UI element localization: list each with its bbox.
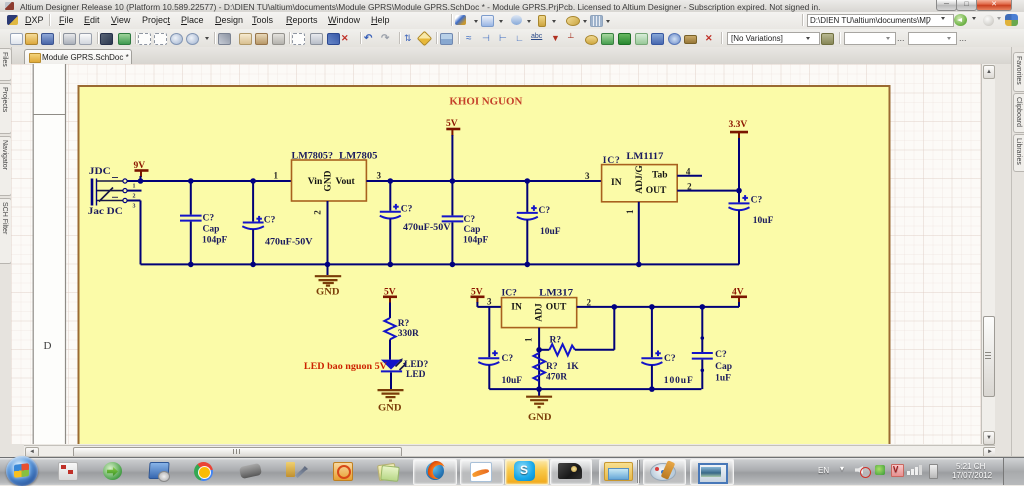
svg-text:10uF: 10uF: [502, 376, 523, 386]
svg-text:10uF: 10uF: [540, 227, 561, 237]
svg-text:C?: C?: [539, 206, 551, 216]
wire 9V rail: [127, 181, 292, 264]
svg-text:Cap: Cap: [203, 225, 220, 235]
svg-text:C?: C?: [502, 354, 514, 364]
svg-text:2: 2: [133, 194, 136, 200]
power 5V top: [446, 119, 460, 181]
svg-text:ADJ: ADJ: [535, 303, 545, 322]
svg-text:C?: C?: [715, 350, 727, 360]
wire bottom rail LM317: [489, 386, 701, 392]
ground GND under LED: [378, 390, 404, 413]
canvas: [11, 64, 981, 444]
wire bottom GND rail: [141, 263, 740, 265]
svg-text:C?: C?: [664, 354, 676, 364]
power 5V for LED branch: [383, 288, 397, 319]
svg-text:LED: LED: [406, 370, 426, 380]
svg-text:104pF: 104pF: [202, 236, 228, 246]
wire U3 input: [477, 306, 501, 308]
svg-text:C?: C?: [203, 214, 215, 224]
svg-text:330R: 330R: [398, 329, 419, 339]
svg-text:JDC: JDC: [89, 167, 111, 177]
node 9V junction: [138, 178, 144, 184]
svg-text:D: D: [44, 340, 52, 352]
svg-text:2: 2: [313, 210, 323, 215]
svg-text:OUT: OUT: [546, 303, 567, 313]
svg-text:1: 1: [524, 337, 534, 342]
svg-text:GND: GND: [378, 404, 402, 414]
title bar: [0, 0, 1024, 13]
svg-text:R?: R?: [546, 362, 558, 372]
capacitor C8 Cap 1uF: [692, 304, 732, 389]
resistor R2 1K feedback: [539, 304, 617, 372]
svg-text:IN: IN: [611, 178, 622, 188]
op-amp U2 LM1117 regulator: [585, 152, 739, 264]
op-amp U3 LM317 regulator: [487, 289, 592, 342]
power 3.3V: [729, 120, 749, 193]
connector J1 JDC jack: [88, 167, 142, 217]
wire U3 ADJ pin: [536, 328, 542, 390]
svg-text:3: 3: [585, 171, 590, 181]
taskbar: [0, 457, 1024, 485]
svg-text:Vout: Vout: [336, 177, 356, 187]
svg-text:Vin: Vin: [308, 177, 323, 187]
svg-text:Tab: Tab: [652, 171, 668, 181]
svg-text:KHOI NGUON: KHOI NGUON: [449, 97, 523, 108]
svg-text:IN: IN: [511, 303, 522, 313]
capacitor C7 100uF: [641, 304, 693, 389]
power 5V for LM317: [471, 288, 485, 307]
svg-text:470R: 470R: [546, 373, 567, 383]
op-amp U1 LM7805 regulator: [274, 152, 382, 215]
svg-text:LED?: LED?: [404, 360, 429, 370]
left strip: [0, 47, 12, 457]
svg-text:1: 1: [274, 171, 279, 181]
capacitor C4 Cap 104pF: [442, 178, 489, 267]
svg-text:3: 3: [133, 204, 136, 210]
vertical scrollbar: [981, 64, 996, 444]
svg-text:GND: GND: [316, 288, 340, 298]
svg-text:C?: C?: [401, 205, 413, 215]
wire U3 output: [577, 306, 739, 308]
svg-text:Cap: Cap: [715, 362, 732, 372]
svg-text:3.3V: 3.3V: [729, 120, 748, 130]
svg-text:1: 1: [625, 209, 635, 214]
svg-text:ADJ/G: ADJ/G: [635, 165, 645, 194]
right strip: [1011, 47, 1024, 457]
wire U1 GND pin 2: [327, 201, 329, 264]
svg-text:GND: GND: [528, 413, 552, 423]
capacitor C5 10uF: [517, 178, 561, 267]
svg-text:3: 3: [487, 297, 492, 307]
power 4V: [731, 288, 747, 307]
capacitor C9 10uF output: [729, 191, 774, 265]
svg-text:100uF: 100uF: [664, 376, 693, 386]
zone letter D: [44, 340, 52, 352]
capacitor C3 470uF-50V: [380, 178, 451, 267]
ground GND under LM317: [526, 389, 552, 423]
svg-text:C?: C?: [751, 196, 763, 206]
svg-text:OUT: OUT: [646, 186, 667, 196]
svg-text:470uF-50V: 470uF-50V: [265, 238, 313, 248]
LED D1: [381, 358, 429, 389]
svg-text:C?: C?: [464, 215, 476, 225]
toolbar: [0, 29, 1024, 48]
label LED bao nguon red: [304, 362, 387, 372]
sheet frame margin column: [33, 64, 65, 444]
svg-text:10uF: 10uF: [753, 216, 774, 226]
resistor R1 330R: [384, 318, 419, 360]
svg-text:470uF-50V: 470uF-50V: [403, 223, 451, 233]
menu bar: [0, 12, 1024, 30]
svg-text:R?: R?: [550, 336, 562, 346]
svg-text:Cap: Cap: [464, 225, 481, 235]
svg-text:R?: R?: [398, 319, 410, 329]
svg-text:104pF: 104pF: [463, 236, 489, 246]
capacitor C6 10uF input LM317: [478, 307, 522, 389]
title KHOI NGUON: [449, 97, 523, 108]
svg-text:GND: GND: [324, 170, 334, 191]
svg-text:1: 1: [133, 184, 136, 190]
wire 5V rail: [366, 180, 601, 182]
ground GND under U1: [315, 264, 341, 297]
svg-text:LM1117: LM1117: [626, 152, 663, 162]
node GND rail junction: [325, 262, 642, 268]
capacitor C1 Cap 104pF: [180, 178, 228, 267]
svg-text:1uF: 1uF: [715, 374, 731, 384]
svg-text:Jac DC: Jac DC: [88, 207, 123, 217]
svg-text:LED bao nguon 5V: LED bao nguon 5V: [304, 362, 387, 372]
capacitor C2 470uF-50V: [242, 178, 312, 267]
svg-text:C?: C?: [264, 216, 276, 226]
svg-text:5V: 5V: [446, 119, 458, 129]
power 9V: [134, 161, 149, 181]
tab bar: [0, 47, 1024, 65]
svg-text:3: 3: [377, 171, 382, 181]
sheet background rectangle: [79, 86, 890, 448]
svg-text:1K: 1K: [567, 362, 580, 372]
resistor R3 470R: [534, 353, 568, 383]
horizontal scrollbar: [24, 445, 996, 457]
